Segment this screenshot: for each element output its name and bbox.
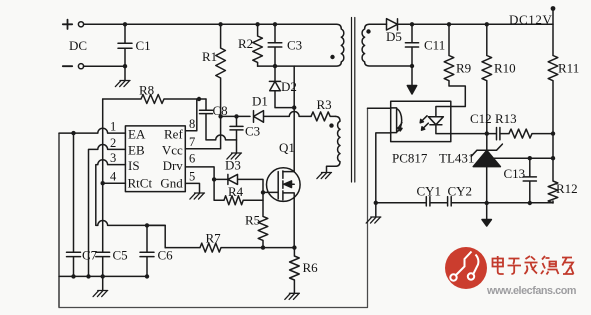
svg-text:R4: R4 <box>228 184 244 199</box>
svg-text:R11: R11 <box>558 61 579 76</box>
svg-text:7: 7 <box>189 135 195 149</box>
svg-text:www.elecfans.com: www.elecfans.com <box>486 285 576 297</box>
svg-text:CY2: CY2 <box>448 184 473 199</box>
svg-text:DC: DC <box>69 38 87 53</box>
svg-text:R9: R9 <box>456 61 471 76</box>
svg-text:Ref: Ref <box>164 127 183 142</box>
svg-text:2: 2 <box>110 136 116 150</box>
svg-text:1: 1 <box>110 120 116 134</box>
svg-text:PC817: PC817 <box>392 151 428 166</box>
svg-text:Drv: Drv <box>163 158 184 173</box>
svg-text:R10: R10 <box>494 61 516 76</box>
svg-text:R12: R12 <box>556 181 578 196</box>
svg-text:D5: D5 <box>386 29 402 44</box>
svg-text:R6: R6 <box>303 260 319 275</box>
svg-text:CY1: CY1 <box>417 184 442 199</box>
svg-text:C1: C1 <box>136 38 151 53</box>
svg-text:Q1: Q1 <box>279 140 295 155</box>
svg-text:R13: R13 <box>495 111 517 126</box>
svg-text:D2: D2 <box>281 79 297 94</box>
svg-text:8: 8 <box>189 117 195 131</box>
svg-text:EB: EB <box>128 143 145 158</box>
svg-text:C3: C3 <box>245 124 260 139</box>
svg-text:R1: R1 <box>202 49 217 64</box>
svg-text:C8: C8 <box>213 103 228 118</box>
svg-text:D3: D3 <box>225 158 241 173</box>
svg-text:IS: IS <box>128 158 140 173</box>
svg-text:R7: R7 <box>206 231 222 246</box>
svg-text:4: 4 <box>110 170 117 184</box>
svg-text:RtCt: RtCt <box>128 176 153 191</box>
svg-text:C6: C6 <box>158 248 174 263</box>
svg-text:C13: C13 <box>504 166 526 181</box>
svg-text:C11: C11 <box>424 38 445 53</box>
svg-text:5: 5 <box>189 170 195 184</box>
svg-text:Vcc: Vcc <box>162 143 183 158</box>
svg-text:R2: R2 <box>238 36 253 51</box>
svg-text:DC12V: DC12V <box>509 12 552 27</box>
svg-text:C7: C7 <box>82 248 98 263</box>
svg-text:C3: C3 <box>287 38 302 53</box>
svg-text:3: 3 <box>110 151 116 165</box>
svg-text:C5: C5 <box>113 248 128 263</box>
svg-text:EA: EA <box>128 127 146 142</box>
svg-text:C12: C12 <box>470 111 492 126</box>
svg-text:6: 6 <box>189 152 195 166</box>
svg-text:Gnd: Gnd <box>160 176 183 191</box>
svg-text:R3: R3 <box>317 97 332 112</box>
svg-text:R5: R5 <box>245 213 260 228</box>
svg-text:D1: D1 <box>252 94 268 109</box>
svg-text:TL431: TL431 <box>439 151 474 166</box>
svg-text:R8: R8 <box>139 83 154 98</box>
